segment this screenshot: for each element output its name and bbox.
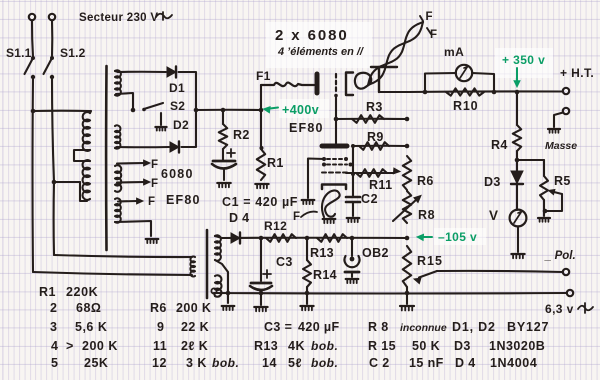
heater squiggle: [301, 212, 317, 217]
svg-text:EF80: EF80: [289, 121, 324, 135]
wiper arrow R15: [419, 271, 437, 278]
svg-text:R4: R4: [491, 138, 508, 152]
wire HT line: [408, 90, 563, 93]
diode D2: [170, 142, 179, 152]
svg-text:22 K: 22 K: [181, 320, 209, 334]
wire: [336, 118, 407, 120]
terminal 6.3V: [567, 290, 573, 296]
svg-text:68Ω: 68Ω: [76, 301, 101, 315]
heater sine symbol: [578, 303, 593, 313]
ground heater: [146, 238, 159, 240]
svg-text:F: F: [430, 29, 438, 41]
wire: [472, 73, 494, 92]
node 63line: [405, 291, 410, 296]
svg-text:F: F: [426, 11, 434, 23]
svg-text:OB2: OB2: [362, 246, 389, 260]
switch S1.1 blade: [25, 58, 34, 74]
wire: [31, 77, 34, 272]
svg-text:C3: C3: [276, 255, 293, 269]
svg-text:6080: 6080: [161, 167, 194, 181]
filament secondary A: [215, 235, 221, 260]
svg-text:F: F: [151, 159, 159, 171]
svg-text:+ 350 v: + 350 v: [502, 53, 545, 67]
wire line1: [54, 255, 192, 257]
svg-text:9: 9: [157, 320, 164, 334]
wire: [214, 293, 215, 296]
meter V: [510, 210, 527, 227]
node R3 right: [405, 117, 410, 122]
svg-text:15 nF: 15 nF: [409, 356, 444, 370]
svg-text:4 ’éléments en //: 4 ’éléments en //: [277, 46, 365, 58]
svg-text:R12: R12: [264, 219, 287, 233]
heater lead F: [117, 162, 144, 165]
svg-text:bob.: bob.: [212, 356, 239, 370]
svg-text:D 4: D 4: [229, 211, 249, 225]
svg-text:S1.2: S1.2: [60, 46, 86, 60]
node: [226, 291, 231, 296]
svg-text:EF80: EF80: [166, 193, 201, 207]
svg-text:6,3 v: 6,3 v: [545, 302, 574, 316]
primary winding A: [83, 112, 90, 151]
svg-text:F: F: [151, 178, 159, 190]
svg-text:D1: D1: [169, 81, 185, 95]
svg-text:14: 14: [262, 356, 277, 370]
node C3 top: [259, 236, 264, 241]
ground OB2: [346, 278, 359, 280]
svg-text:S2: S2: [170, 99, 185, 113]
wire: [54, 181, 80, 183]
svg-text:inconnue: inconnue: [400, 322, 447, 334]
transformer core: [105, 66, 108, 250]
green arrow -105: [421, 236, 432, 238]
wire: [406, 287, 408, 304]
wire: [115, 221, 151, 236]
resistor R14: [306, 238, 308, 260]
capacitor C1 plus: [227, 149, 235, 157]
wire: [554, 113, 563, 128]
wire: [353, 145, 407, 147]
white-out patch behind 105v: [434, 228, 486, 245]
svg-text:R3: R3: [366, 100, 383, 114]
white-out patch behind 6080 labels: [266, 22, 372, 68]
wire tap-S2: [116, 93, 133, 108]
wire 6.3V line: [214, 292, 567, 295]
heater winding EF80: [115, 198, 121, 222]
svg-text:5,6 K: 5,6 K: [75, 320, 107, 334]
svg-text:R 8: R 8: [368, 320, 389, 334]
ground C2: [347, 217, 360, 219]
terminal Masse: [563, 108, 569, 114]
resistor R6: [403, 156, 411, 190]
svg-text:R1: R1: [39, 285, 56, 299]
svg-text:R1: R1: [267, 156, 284, 170]
svg-text:D2: D2: [173, 118, 189, 132]
svg-text:F1: F1: [256, 69, 271, 83]
svg-text:220K: 220K: [66, 285, 98, 299]
heater lead F EF80: [118, 200, 137, 203]
wire: [118, 71, 166, 73]
tube grid row1: [322, 157, 326, 161]
node: [259, 291, 264, 296]
wire S2 stub: [160, 113, 162, 125]
svg-text:D 4: D 4: [455, 356, 476, 370]
resistor R1: [260, 110, 262, 149]
svg-text:R11: R11: [369, 178, 392, 192]
svg-text:_ Pol.: _ Pol.: [544, 250, 576, 262]
svg-text:C1 = 420 µF: C1 = 420 µF: [222, 195, 298, 209]
node: [305, 291, 310, 296]
resistor R4: [516, 92, 518, 125]
svg-text:3 K: 3 K: [186, 356, 207, 370]
svg-text:R9: R9: [367, 130, 384, 144]
svg-text:bob.: bob.: [311, 339, 338, 353]
svg-text:D3: D3: [454, 339, 471, 353]
ground C1: [217, 182, 230, 184]
svg-text:Masse: Masse: [545, 140, 577, 152]
svg-text:11: 11: [153, 339, 167, 353]
svg-text:2ℓ K: 2ℓ K: [181, 339, 208, 353]
resistor R13: [317, 234, 347, 242]
svg-text:4: 4: [51, 339, 58, 353]
svg-text:F: F: [293, 211, 301, 223]
wire grid left: [308, 159, 324, 199]
wire: [117, 146, 169, 148]
wire: [33, 110, 90, 112]
diode D3: [516, 160, 518, 171]
resistor R11: [356, 169, 387, 177]
wire: [346, 172, 394, 174]
svg-text:bob.: bob.: [311, 356, 338, 370]
pot arrow R8: [393, 199, 417, 221]
terminal HT+: [563, 88, 569, 94]
svg-text:50 K: 50 K: [412, 339, 440, 353]
heater lead F: [117, 181, 144, 184]
node tap: [52, 180, 57, 185]
svg-text:D3: D3: [484, 175, 501, 189]
diode D4: [231, 233, 240, 243]
svg-text:mA: mA: [444, 45, 464, 59]
svg-text:25K: 25K: [84, 356, 108, 370]
resistor R10: [446, 88, 484, 95]
tube anode bar: [322, 144, 347, 149]
green arrow 400V: [266, 108, 278, 110]
svg-text:R5: R5: [554, 174, 571, 188]
svg-text:R14: R14: [313, 268, 337, 282]
wire: [51, 21, 53, 58]
ground R1: [255, 183, 268, 185]
wire: [517, 227, 519, 253]
svg-text:12: 12: [152, 356, 167, 370]
filament core: [206, 230, 209, 298]
ground grid: [302, 199, 315, 201]
ground R14: [300, 305, 313, 307]
svg-text:200 K: 200 K: [82, 339, 118, 353]
svg-text:R6: R6: [150, 301, 167, 315]
svg-text:200 K: 200 K: [176, 301, 211, 315]
tube EF80 cathode bracket: [346, 73, 353, 96]
svg-text:+400v: +400v: [282, 103, 319, 117]
svg-text:R6: R6: [417, 174, 434, 188]
tube heater loop: [322, 190, 340, 217]
tube EF80 anode bar: [315, 74, 320, 93]
wire grid right: [352, 146, 354, 174]
resistor R3: [352, 115, 384, 123]
twisted pair heater: [368, 22, 423, 85]
svg-text:R15: R15: [417, 254, 443, 268]
resistor R12: [266, 234, 296, 242]
svg-text:4K: 4K: [288, 339, 305, 353]
svg-text:C2: C2: [361, 192, 378, 206]
wire: [80, 182, 87, 201]
svg-text:D1, D2: D1, D2: [452, 320, 496, 334]
wire: [425, 73, 456, 92]
primary winding B: [83, 160, 90, 200]
svg-text:R 15: R 15: [368, 339, 396, 353]
ground C3: [254, 306, 267, 308]
capacitor C1: [222, 149, 224, 160]
svg-text:R8: R8: [418, 208, 435, 222]
ground V: [511, 253, 524, 255]
resistor R5: [543, 160, 545, 176]
svg-text:>: >: [66, 339, 74, 353]
heater winding 6080: [115, 165, 121, 192]
node R3 left: [334, 117, 339, 122]
wire pol line: [437, 271, 563, 272]
capacitor C2: [352, 174, 354, 196]
wire: [32, 21, 33, 58]
pot R5 wiper: [552, 192, 562, 195]
svg-text:3: 3: [50, 320, 57, 334]
resistor R9: [359, 142, 389, 150]
tube cathode bar: [322, 185, 346, 190]
svg-text:+ H.T.: + H.T.: [560, 66, 594, 80]
resistor R2: [222, 110, 224, 124]
secondary HT winding B: [115, 125, 120, 148]
svg-text:C 2: C 2: [369, 356, 390, 370]
wire: [52, 77, 54, 182]
diode D1: [167, 67, 176, 77]
wire: [260, 85, 262, 110]
wire: [379, 91, 408, 93]
node rectifier out: [194, 108, 199, 113]
svg-text:420 µF: 420 µF: [298, 320, 340, 334]
svg-text:BY127: BY127: [507, 320, 549, 334]
mains sine symbol: [156, 12, 172, 20]
node OB2 top: [350, 236, 355, 241]
switch S2 blade: [144, 103, 163, 109]
svg-text:2: 2: [50, 301, 57, 315]
resistor R8: [403, 191, 411, 223]
ground stub: [222, 305, 235, 307]
green arrow 350V: [516, 68, 518, 82]
wire: [179, 72, 197, 108]
tube 6080 anode: [371, 66, 397, 68]
svg-text:2 x 6080: 2 x 6080: [275, 27, 349, 44]
ground Masse: [548, 128, 560, 130]
resistor R15: [403, 246, 411, 287]
node R2 top: [221, 108, 226, 113]
filament primary: [190, 257, 195, 277]
ground bus: [400, 305, 414, 307]
filament secondary B: [215, 275, 222, 297]
ground R5: [538, 217, 550, 219]
white-out patch behind 350v: [495, 48, 553, 78]
node bus: [405, 236, 410, 241]
tube 6080 heater loop: [355, 73, 371, 89]
node R4 bottom: [515, 158, 520, 163]
svg-text:C3 =: C3 =: [264, 320, 292, 334]
tube grid row2: [322, 163, 326, 167]
pot arrow R11: [393, 168, 400, 174]
wire: [517, 159, 544, 161]
capacitor C3 plus: [263, 270, 271, 278]
switch S1.2 blade: [44, 58, 53, 74]
svg-text:R2: R2: [233, 128, 250, 142]
svg-text:F: F: [148, 196, 156, 208]
primary tap loop: [74, 150, 90, 161]
svg-text:S1.1: S1.1: [6, 46, 32, 60]
wire rail -105: [222, 237, 407, 239]
svg-text:Secteur 230 V: Secteur 230 V: [79, 12, 158, 24]
wire: [215, 260, 228, 303]
svg-text:5: 5: [51, 356, 58, 370]
svg-text:R13: R13: [310, 246, 334, 260]
wire: [182, 112, 197, 147]
svg-text:1N4004: 1N4004: [490, 356, 537, 370]
terminal mains N: [49, 14, 55, 20]
svg-text:1N3020B: 1N3020B: [489, 339, 545, 353]
capacitor C3: [260, 238, 262, 281]
wire line2: [33, 272, 192, 275]
node R14 top: [305, 236, 310, 241]
node R9 right: [405, 144, 410, 149]
secondary HT winding A: [115, 70, 121, 95]
wire anode lead: [335, 95, 337, 144]
svg-text:5ℓ: 5ℓ: [288, 356, 302, 370]
tube OB2: [351, 238, 353, 256]
node mains-primary: [31, 109, 36, 114]
tube EF80 grid: [335, 74, 337, 94]
wire: [53, 182, 56, 255]
wire: [546, 194, 562, 211]
wire: [196, 109, 261, 111]
terminal mains L: [29, 14, 35, 20]
node meter right: [492, 90, 497, 95]
wire: [543, 200, 545, 216]
node 350V: [515, 90, 520, 95]
terminal Pol: [563, 269, 569, 275]
meter mA: [456, 65, 472, 81]
fuse F1: [261, 83, 314, 87]
ground heater: [323, 218, 336, 220]
tube grid row3: [322, 172, 348, 174]
node S2 pivot: [131, 108, 136, 113]
ground S2: [155, 126, 166, 128]
svg-text:R13: R13: [254, 339, 278, 353]
node 400V: [259, 108, 264, 113]
node meter left: [423, 90, 428, 95]
svg-text:R10: R10: [453, 99, 478, 113]
svg-text:–105 v: –105 v: [438, 230, 477, 244]
svg-text:V: V: [489, 208, 499, 223]
white-out patch behind 400v: [279, 99, 329, 118]
